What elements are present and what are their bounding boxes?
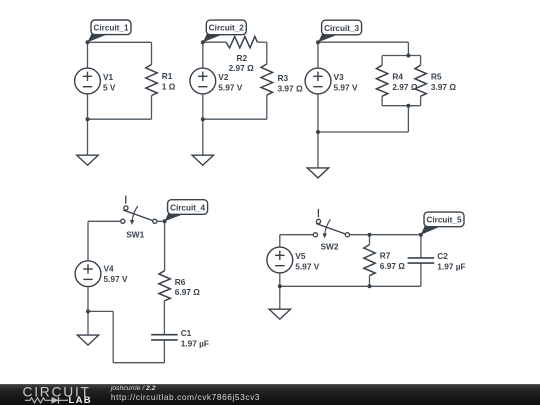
wire: node to R2 left lead	[203, 41, 226, 43]
svg-text:2.97 Ω: 2.97 Ω	[229, 63, 254, 73]
wire: ground stub Circuit_2	[202, 119, 204, 155]
wire: R5 bottom lead	[420, 96, 422, 106]
wire: ground stub Circuit_3	[317, 132, 319, 168]
wire: node down to R6	[164, 221, 166, 270]
wire: R5 top lead	[420, 56, 422, 66]
svg-text:V2: V2	[218, 72, 229, 82]
wire: V3 bottom lead	[317, 94, 319, 132]
svg-text:Circuit_1: Circuit_1	[93, 24, 128, 33]
node: Circuit_3 top	[316, 40, 320, 44]
svg-text:R4: R4	[392, 72, 403, 82]
callout label Circuit_2	[203, 20, 247, 42]
wire: R7 top lead	[369, 235, 371, 245]
svg-text:6.97 Ω: 6.97 Ω	[380, 261, 405, 271]
svg-text:5.97 V: 5.97 V	[334, 83, 358, 93]
svg-text:Circuit_4: Circuit_4	[170, 203, 205, 212]
svg-text:R3: R3	[278, 73, 289, 83]
resistor R2	[226, 37, 257, 48]
node: parallel bottom junction	[406, 104, 410, 108]
svg-text:V3: V3	[334, 72, 345, 82]
wire: C1 bottom lead	[163, 340, 165, 363]
wire: parallel bracket bottom	[382, 105, 421, 107]
logo resistor zigzag and diode glyph	[25, 398, 68, 403]
svg-text:V5: V5	[295, 251, 306, 261]
wire: R2 right lead to corner	[257, 41, 266, 43]
wire: parallel bracket top	[382, 55, 421, 57]
wire: V5 bottom lead	[279, 273, 281, 286]
wire: SW2 left contact to corner	[280, 234, 314, 236]
svg-text:5.97 V: 5.97 V	[218, 83, 242, 93]
wire: R1 top lead	[151, 42, 153, 64]
node: Circuit_5 / C2 top	[419, 233, 423, 237]
svg-text:R6: R6	[175, 277, 186, 287]
ground Circuit_5	[269, 309, 290, 319]
svg-text:6.97 Ω: 6.97 Ω	[175, 287, 200, 297]
node: Circuit_2 top	[201, 40, 205, 44]
node: R7 bottom junction	[368, 284, 372, 288]
wire: V2 top lead	[202, 42, 204, 68]
switch SW2	[313, 209, 349, 252]
wire: corner down to bottom rail	[112, 311, 114, 362]
svg-text:3.97 Ω: 3.97 Ω	[431, 82, 456, 92]
node: Circuit_1 top	[86, 40, 90, 44]
wire: C2 bottom lead	[420, 263, 422, 286]
wire: V2 bottom lead	[202, 94, 204, 119]
wire: V1 bottom lead	[87, 94, 89, 119]
wire: V1 top lead	[87, 42, 89, 68]
svg-text:V4: V4	[104, 264, 115, 274]
svg-text:5.97 V: 5.97 V	[295, 262, 319, 272]
svg-text:V1: V1	[103, 72, 114, 82]
callout label Circuit_4	[165, 200, 208, 222]
wire: Circuit_2 bottom rail	[203, 118, 267, 120]
svg-text:R5: R5	[431, 72, 442, 82]
voltage source V5	[267, 247, 293, 273]
resistor R1	[146, 65, 157, 96]
wire: node to corner right	[88, 310, 113, 312]
svg-text:2.97 Ω: 2.97 Ω	[392, 82, 417, 92]
capacitor C2	[408, 258, 435, 263]
callout label Circuit_3	[318, 20, 362, 42]
wire: C1 top lead / R6 bottom lead	[163, 301, 165, 335]
ground Circuit_1	[77, 155, 98, 165]
wire: V4 bottom lead	[87, 287, 89, 312]
svg-text:C1: C1	[181, 328, 192, 338]
voltage source V4	[75, 261, 101, 287]
svg-text:1 Ω: 1 Ω	[162, 82, 176, 92]
wire: R4 bottom lead	[381, 96, 383, 106]
wire: R3 top lead	[266, 42, 268, 64]
wire: ground stub Circuit_5	[279, 286, 281, 309]
wire: down to parallel bracket	[407, 42, 409, 55]
svg-text:SW2: SW2	[321, 242, 339, 252]
callout label Circuit_5	[421, 212, 464, 235]
resistor R3	[261, 64, 272, 95]
voltage source V2	[190, 68, 216, 94]
wire: V3 top lead	[317, 42, 319, 68]
wire: SW1 right contact to node	[157, 220, 165, 222]
wire: R3 bottom lead	[266, 95, 268, 119]
svg-text:LAB: LAB	[69, 395, 92, 405]
svg-text:1.97 µF: 1.97 µF	[437, 262, 465, 272]
capacitor C1	[151, 335, 178, 340]
voltage source V3	[305, 68, 331, 94]
wire: ground stub Circuit_4	[87, 311, 89, 335]
svg-text:5 V: 5 V	[103, 83, 116, 93]
resistor R5	[415, 65, 426, 96]
wire: SW2 right contact to C2 top	[349, 234, 421, 236]
svg-text:SW1: SW1	[126, 229, 144, 239]
svg-text:R2: R2	[236, 53, 247, 63]
wire: C2 top lead	[420, 235, 422, 258]
wire: R4 top lead	[381, 56, 383, 66]
node: Circuit_3 bottom	[316, 130, 320, 134]
wire: ground stub Circuit_1	[87, 119, 89, 155]
svg-text:1.97 µF: 1.97 µF	[181, 338, 209, 348]
wire: Circuit_4 bottom rail	[113, 362, 164, 364]
svg-text:Circuit_3: Circuit_3	[324, 24, 359, 33]
ground Circuit_2	[192, 155, 213, 165]
resistor R6	[159, 271, 170, 301]
node: R7 top junction	[368, 233, 372, 237]
svg-text:http://circuitlab.com/cvk7866j: http://circuitlab.com/cvk7866j53cv3	[111, 392, 260, 402]
node: Circuit_2 bottom	[201, 117, 205, 121]
node: below V4	[86, 309, 90, 313]
node: Circuit_4 top	[163, 219, 167, 223]
svg-text:3.97 Ω: 3.97 Ω	[278, 83, 303, 93]
wire: SW1 left contact to corner	[88, 220, 121, 222]
svg-text:C2: C2	[437, 251, 448, 261]
svg-text:Circuit_2: Circuit_2	[209, 24, 244, 33]
wire: bracket down to bottom rail	[407, 106, 409, 132]
svg-text:R1: R1	[162, 71, 173, 81]
svg-text:Circuit_5: Circuit_5	[426, 216, 461, 225]
svg-text:R7: R7	[380, 251, 391, 261]
ground Circuit_4	[77, 335, 98, 345]
wire: V4 top lead	[87, 221, 89, 260]
ground Circuit_3	[307, 168, 328, 178]
switch SW1	[121, 196, 157, 240]
wire: Circuit_1 bottom rail	[88, 118, 152, 120]
voltage source V1	[75, 68, 101, 94]
wire: R7 bottom lead	[369, 276, 371, 287]
wire: Circuit_3 top rail	[318, 41, 408, 43]
node: parallel top junction	[406, 54, 410, 58]
wire: V5 top lead	[279, 235, 281, 248]
wire: Circuit_5 bottom rail	[280, 285, 421, 287]
callout label Circuit_1	[88, 20, 132, 42]
resistor R4	[376, 65, 387, 96]
svg-text:5.97 V: 5.97 V	[104, 274, 128, 284]
node: below V5	[278, 284, 282, 288]
node: Circuit_1 bottom	[86, 117, 90, 121]
svg-text:joshcurrie / 2.2: joshcurrie / 2.2	[110, 385, 156, 392]
resistor R7	[364, 245, 375, 276]
wire: Circuit_3 bottom rail	[318, 131, 408, 133]
wire: R1 bottom lead	[151, 96, 153, 120]
wire: Circuit_1 top rail	[88, 41, 152, 43]
